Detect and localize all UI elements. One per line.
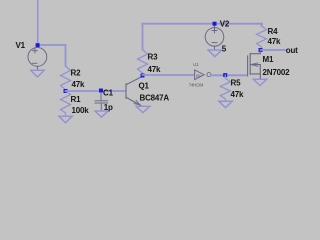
svg-text:U1: U1 [193,62,199,67]
ground below M1 source [253,79,267,85]
ground below C1 [95,111,108,117]
wire out [261,49,287,51]
node junction R3/collector [141,74,145,78]
resistor R2 [61,66,71,91]
svg-text:BC847A: BC847A [140,94,170,103]
mosfet M1 [248,51,261,80]
svg-text:47k: 47k [268,37,281,46]
node junction C1 [99,89,103,93]
svg-text:47k: 47k [72,80,85,89]
svg-text:R3: R3 [148,53,159,62]
wire base net from R2 junction to Q1 [66,90,126,92]
resistor R5 [220,75,230,101]
resistor R1 [61,91,71,116]
wire R3 top lead [142,24,144,50]
ground below V2 [208,50,222,57]
transistor Q1 [126,77,142,107]
node junction V1 top [36,43,40,47]
wire top rail [143,23,263,25]
voltage source V2 [205,26,224,50]
svg-text:R2: R2 [71,69,82,78]
wire collector node to inverter input [143,74,195,76]
wire R4 top lead [261,24,263,26]
wire R2 lead [65,45,67,66]
svg-text:R4: R4 [268,27,279,36]
svg-text:V2: V2 [220,20,230,29]
svg-text:2N7002: 2N7002 [263,68,291,77]
resistor R3 [138,50,148,76]
svg-text:47k: 47k [231,90,244,99]
svg-text:47k: 47k [148,65,161,74]
node junction R5 [223,73,227,77]
ground below V1 [31,70,44,77]
inverter U1 [195,70,211,80]
ground below Q1 emitter [136,106,150,112]
wire V1 to R2 horizontal [38,44,66,46]
svg-text:out: out [286,46,298,55]
wire V1 top vertical [37,0,39,45]
svg-text:V1: V1 [16,41,26,50]
svg-text:5: 5 [222,45,227,54]
svg-text:C1: C1 [103,88,114,97]
ground below R5 [219,101,233,107]
ground below R1 [59,116,72,123]
svg-text:R1: R1 [71,95,82,104]
emitter arrow of Q1 [134,100,140,104]
node junction V2 top [213,22,217,26]
capacitor C1 [95,93,108,111]
node junction R4/drain/out [259,48,263,52]
node junction R2/R1/base [64,89,68,93]
svg-text:M1: M1 [263,55,274,64]
svg-text:74HC04: 74HC04 [189,83,204,88]
svg-text:R5: R5 [231,79,242,88]
body arrow of M1 [251,63,258,66]
resistor R4 [257,26,267,50]
svg-text:Q1: Q1 [139,82,150,91]
svg-text:1p: 1p [104,103,113,112]
svg-text:100k: 100k [72,106,90,115]
wire inverter output to gate [211,74,247,76]
voltage source V1 [28,48,47,71]
